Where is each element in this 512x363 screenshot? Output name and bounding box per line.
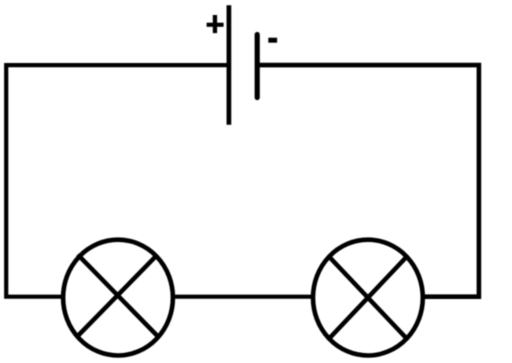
battery B1 negative plate (short) (255, 35, 260, 98)
lamp L1 cross line 2 (78, 255, 158, 336)
battery B1 positive plate (long) (227, 5, 232, 125)
lamp L2 cross line 2 (328, 255, 408, 340)
wire left loop: top-left, left side, bottom-left (6, 65, 229, 297)
lamp L2 circle (313, 240, 423, 356)
lamp L1 circle (63, 240, 173, 356)
lamp L1 cross line 1 (78, 255, 158, 336)
battery minus label (268, 38, 277, 43)
wire right loop: top-right, right side, bottom-right (257, 65, 479, 297)
battery plus label (207, 23, 224, 27)
wire bottom middle between lamps (173, 295, 314, 299)
lamp L2 cross line 1 (328, 255, 408, 340)
